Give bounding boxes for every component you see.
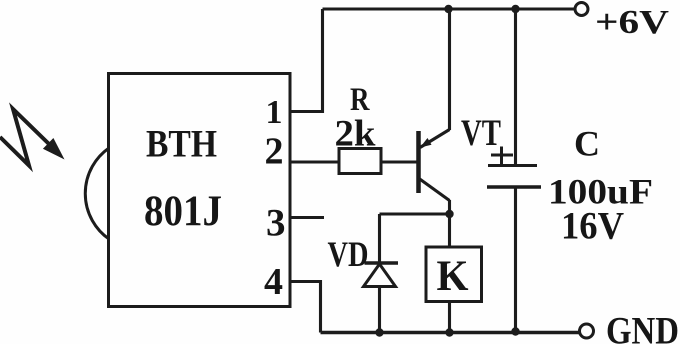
IC U1 BTH 801J box (109, 74, 291, 307)
svg-text:1: 1 (266, 94, 283, 131)
junction dot rail-emitter (444, 5, 452, 13)
svg-text:2k: 2k (335, 114, 376, 155)
IR input arrow (0, 109, 50, 166)
junction dot collector node (445, 210, 453, 218)
svg-text:K: K (437, 253, 470, 300)
diode VD triangle (364, 264, 396, 287)
relay K box (426, 247, 482, 302)
svg-text:GND: GND (606, 310, 679, 344)
svg-text:VT: VT (461, 112, 501, 153)
wire K to ground rail (448, 302, 451, 333)
transistor VT collector diagonal (419, 179, 450, 201)
capacitor C top plate (488, 164, 537, 167)
wire ground rail (321, 331, 581, 335)
junction dot rail-capacitor (511, 5, 519, 13)
wire collector down (448, 200, 451, 247)
svg-text:16V: 16V (561, 205, 624, 248)
junction dot capacitor-rail (511, 327, 519, 335)
transistor VT emitter arrowhead (420, 138, 432, 148)
wire pin2 to resistor (290, 160, 339, 163)
capacitor plus sign (491, 147, 513, 166)
wire diode to ground rail (378, 287, 381, 333)
wire collector node to diode (380, 212, 450, 215)
svg-text:2: 2 (265, 131, 284, 173)
resistor R1 body (339, 149, 381, 174)
svg-text:+6V: +6V (595, 4, 670, 41)
svg-text:3: 3 (266, 202, 286, 245)
capacitor C bottom plate (487, 185, 541, 189)
svg-text:4: 4 (264, 261, 283, 303)
wire capacitor to ground rail (514, 187, 517, 333)
IC lens arc (85, 148, 109, 239)
wire pin3 stub (290, 216, 324, 219)
wire pin1 to top rail (290, 9, 323, 112)
svg-text:BTH: BTH (146, 123, 217, 166)
IR arrowhead (43, 138, 65, 160)
transistor VT base bar (416, 131, 421, 193)
junction dot diode-rail (375, 328, 383, 336)
svg-text:C: C (574, 124, 600, 164)
terminal +6V (575, 3, 588, 16)
wire pin4 to ground rail (290, 282, 321, 333)
svg-text:VD: VD (328, 234, 369, 274)
wire capacitor top (514, 9, 517, 165)
junction dot K-rail (445, 328, 453, 336)
svg-text:801J: 801J (144, 188, 222, 235)
diode VD cathode bar (365, 261, 399, 265)
wire resistor to base (381, 160, 417, 163)
wire top rail (323, 7, 576, 10)
wire diode top (378, 214, 381, 263)
transistor VT emitter diagonal (420, 130, 450, 148)
wire emitter to rail (448, 9, 451, 130)
terminal GND (580, 324, 594, 338)
